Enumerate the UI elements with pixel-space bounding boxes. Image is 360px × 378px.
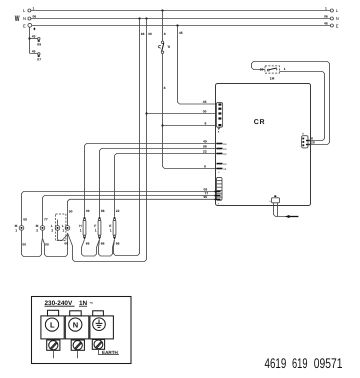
lamp L1 <box>62 209 73 245</box>
svg-text:X9: X9 <box>37 42 41 46</box>
door switch <box>260 66 286 81</box>
terminal L left <box>28 9 31 12</box>
wire 8 lower <box>163 54 217 169</box>
svg-text:66: 66 <box>116 242 120 246</box>
svg-text:TI: TI <box>167 45 170 49</box>
mains terminal block <box>32 297 132 364</box>
svg-text:8: 8 <box>164 32 166 36</box>
terminal earth <box>90 311 119 355</box>
svg-text:W: W <box>15 14 20 23</box>
svg-text:20: 20 <box>260 68 264 72</box>
svg-text:E: E <box>336 23 339 28</box>
svg-text:22: 22 <box>116 209 120 213</box>
terminal N <box>65 311 89 359</box>
chassis arrow <box>33 27 36 30</box>
svg-text:EARTH: EARTH <box>102 350 119 355</box>
svg-text:45: 45 <box>203 100 207 104</box>
wire 66 drop <box>114 19 140 256</box>
wire 90 <box>68 199 215 225</box>
svg-text:N: N <box>336 16 339 21</box>
svg-text:06: 06 <box>33 15 37 19</box>
svg-text:09571: 09571 <box>314 355 343 371</box>
terminal E right <box>330 24 333 27</box>
svg-text:N: N <box>73 320 78 329</box>
wire earth drop <box>30 27 38 53</box>
svg-text:45: 45 <box>179 31 183 35</box>
heater E1 <box>109 209 119 246</box>
svg-text:66: 66 <box>86 242 90 246</box>
terminal N right <box>330 17 333 20</box>
wire 22 <box>114 156 116 217</box>
svg-text:66: 66 <box>101 242 105 246</box>
svg-text:45: 45 <box>32 50 36 54</box>
svg-text:2: 2 <box>36 228 38 232</box>
svg-text:1: 1 <box>284 67 286 71</box>
pin 8 <box>217 168 223 170</box>
junction earth branch <box>28 37 30 39</box>
heater F1 <box>94 209 114 256</box>
wire 00 into CR <box>147 113 217 115</box>
svg-text:619: 619 <box>292 355 308 371</box>
svg-text:66: 66 <box>141 32 145 36</box>
svg-text:1M: 1M <box>270 76 275 80</box>
wire 00 drop <box>68 19 147 262</box>
control board CR <box>216 84 311 206</box>
svg-text:00: 00 <box>22 243 26 247</box>
svg-text:L: L <box>50 320 55 329</box>
terminal L <box>41 310 64 358</box>
svg-text:8: 8 <box>205 121 207 125</box>
svg-text:45: 45 <box>32 35 36 39</box>
svg-text:1: 1 <box>80 228 82 232</box>
spare pin <box>217 163 223 165</box>
wire pin20 to switch <box>306 144 311 145</box>
junction 66 on N <box>138 17 140 19</box>
svg-text:00: 00 <box>64 241 68 245</box>
wire E bus <box>32 25 331 27</box>
svg-text:8: 8 <box>204 164 206 168</box>
lamp L2 optional <box>51 214 68 241</box>
svg-text:N: N <box>302 132 304 135</box>
wire pin8 to switch <box>306 140 311 141</box>
svg-text:K2: K2 <box>223 163 227 166</box>
wire 45 drop <box>178 26 217 105</box>
svg-text:K3: K3 <box>223 148 227 151</box>
junction 8 to CR <box>161 124 163 126</box>
svg-text:E: E <box>23 23 26 28</box>
connector X4 right <box>302 132 308 148</box>
junction 00 branch to CR <box>145 112 147 114</box>
svg-text:CR: CR <box>254 119 265 126</box>
svg-text:22: 22 <box>203 149 207 153</box>
wire 8 upper <box>162 11 164 42</box>
svg-text:1: 1 <box>325 7 327 11</box>
wire earth branch 1 <box>30 38 38 40</box>
svg-text:77: 77 <box>44 218 48 222</box>
svg-text:K2: K2 <box>223 153 227 156</box>
svg-text:49: 49 <box>203 139 207 143</box>
svg-text:20: 20 <box>311 141 315 145</box>
terminal N left <box>28 17 31 20</box>
junction 8 on L <box>161 9 163 11</box>
wire 49 <box>84 146 86 217</box>
junction 45 on E <box>176 24 178 26</box>
svg-text:8: 8 <box>164 86 166 90</box>
svg-text:N: N <box>23 16 26 21</box>
terminal E left <box>28 23 32 27</box>
svg-text:00: 00 <box>45 242 49 246</box>
motor M1 <box>15 218 43 257</box>
wire 77 <box>43 196 215 226</box>
svg-text:1: 1 <box>33 7 35 11</box>
svg-text:98: 98 <box>101 209 105 213</box>
svg-text:00: 00 <box>148 32 152 36</box>
svg-text:K4: K4 <box>223 143 227 146</box>
svg-text:1: 1 <box>95 228 97 232</box>
connector X2 on CR <box>215 177 223 205</box>
connector X1 on CR <box>216 103 222 134</box>
wire L bus <box>31 10 330 12</box>
svg-text:90: 90 <box>204 195 208 199</box>
wire 98 <box>99 151 101 217</box>
svg-text:1: 1 <box>62 228 64 232</box>
wire 09 <box>22 192 215 226</box>
svg-text:~: ~ <box>90 300 94 307</box>
terminal L right <box>330 9 333 12</box>
svg-text:00: 00 <box>203 109 207 113</box>
svg-text:4619: 4619 <box>265 355 287 371</box>
svg-text:49: 49 <box>86 209 90 213</box>
svg-text:09: 09 <box>23 218 27 222</box>
svg-text:2: 2 <box>51 228 53 232</box>
svg-text:45: 45 <box>324 22 328 26</box>
svg-text:X7: X7 <box>37 58 41 62</box>
svg-text:1: 1 <box>15 228 17 232</box>
svg-text:90: 90 <box>69 209 73 213</box>
wire N bus <box>31 18 330 20</box>
wire 8 into CR <box>163 125 217 127</box>
earth terminal X9 <box>38 38 40 40</box>
heater H1 <box>79 209 99 256</box>
junction 00 on N <box>145 17 147 19</box>
switch TI <box>158 41 170 54</box>
component B on CR bottom <box>269 195 298 218</box>
svg-text:1: 1 <box>110 228 112 232</box>
motor M2 <box>36 218 68 257</box>
svg-text:06: 06 <box>324 15 328 19</box>
svg-text:98: 98 <box>203 144 207 148</box>
